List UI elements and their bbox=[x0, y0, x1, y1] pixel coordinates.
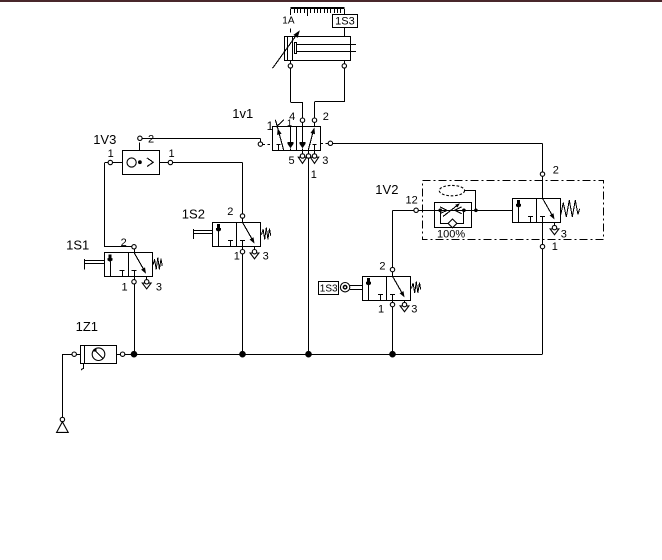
svg-text:3: 3 bbox=[322, 155, 328, 167]
compressed air supply bbox=[57, 417, 69, 432]
1S2 port 3 exhaust bbox=[250, 246, 259, 259]
svg-text:1v1: 1v1 bbox=[232, 106, 253, 121]
label 2 (1V3 top) bbox=[148, 133, 154, 145]
1S1 port 2 connection bbox=[132, 245, 136, 253]
wire 1S3 valve port 1 down bbox=[392, 307, 394, 355]
supply rail bbox=[125, 354, 543, 356]
label 1 (1S2) bbox=[234, 251, 240, 263]
flow control valve (throttle) 1V2 bbox=[418, 203, 512, 228]
1V2 pilot port 12 bbox=[414, 208, 418, 212]
port label 5 bbox=[288, 155, 294, 167]
label 2 (1V2) bbox=[553, 164, 559, 176]
svg-text:1S2: 1S2 bbox=[182, 207, 205, 222]
label 2 (1S3 valve) bbox=[379, 261, 385, 273]
svg-text:2: 2 bbox=[121, 237, 127, 249]
svg-text:2: 2 bbox=[379, 261, 385, 273]
1S3 sensor box bbox=[319, 282, 339, 295]
svg-text:1: 1 bbox=[311, 169, 317, 181]
label 1 (pilot 14) bbox=[267, 119, 274, 133]
svg-text:2: 2 bbox=[227, 206, 233, 218]
1v1 port 1 connection bbox=[306, 154, 310, 158]
port label 3 (1v1) bbox=[322, 155, 328, 167]
1S3 valve port 2 connection bbox=[390, 267, 394, 276]
air reservoir (oval) bbox=[439, 185, 464, 195]
port label 4 bbox=[289, 111, 295, 123]
1S3 valve return spring bbox=[412, 282, 421, 294]
check valve bypass 1V2 bbox=[440, 210, 464, 228]
1S3 sensor plunger bbox=[350, 286, 363, 290]
wire cylinder right port to valve port 2 bbox=[315, 68, 345, 118]
1v1 left box flow symbols bbox=[275, 120, 293, 150]
label 1 (1S1) bbox=[122, 281, 128, 293]
svg-text:3: 3 bbox=[561, 228, 567, 240]
wire port 12 to 1S3 valve port 2 bbox=[393, 210, 414, 267]
svg-text:3: 3 bbox=[156, 281, 162, 293]
wire 1V3 left stub bbox=[112, 162, 122, 164]
1V2 enclosure bbox=[423, 181, 604, 240]
1v1 right box flow symbols bbox=[300, 122, 317, 150]
1Z1 right port connection bbox=[117, 352, 125, 356]
svg-text:2: 2 bbox=[323, 111, 329, 123]
1v1 port 5 connection bbox=[300, 154, 304, 158]
timer 3/2 valve body bbox=[513, 198, 561, 222]
wire 1v1 port 1 down to rail bbox=[308, 158, 310, 354]
junction dot right bbox=[462, 209, 466, 213]
label 2 (1S1) bbox=[121, 237, 127, 249]
1S2 return spring bbox=[262, 228, 271, 240]
svg-text:1Z1: 1Z1 bbox=[76, 319, 98, 334]
1S2 port 2 connection bbox=[240, 214, 244, 223]
wire 1S1 port 1 down bbox=[134, 284, 136, 354]
label 1v1 bbox=[232, 106, 253, 121]
label 12 bbox=[406, 195, 418, 207]
1S3 valve port 1 connection bbox=[390, 300, 394, 307]
wire 1V3 left to 1S1 port 2 bbox=[105, 163, 132, 247]
port label 2 (1v1) bbox=[323, 111, 329, 123]
cylinder left port bbox=[288, 60, 292, 68]
valve 1S2 body bbox=[213, 222, 261, 246]
label 2 (1S2) bbox=[227, 206, 233, 218]
junction node 1S1 bbox=[131, 351, 138, 358]
wire timer port 1 down to rail bbox=[542, 249, 544, 355]
service unit 1Z1 bbox=[81, 345, 117, 370]
svg-text:2: 2 bbox=[553, 164, 559, 176]
wire 1V3 right stub bbox=[159, 162, 168, 164]
1v1 left pilot bbox=[258, 142, 272, 146]
timer valve port 2 connection bbox=[540, 172, 544, 198]
wire cylinder left port to valve port 4 bbox=[290, 68, 302, 118]
svg-text:1V2: 1V2 bbox=[375, 182, 398, 197]
timer valve port 1 connection bbox=[540, 222, 544, 249]
valve 1S1 body bbox=[105, 253, 153, 277]
svg-text:1: 1 bbox=[122, 281, 128, 293]
label 3 (1S2) bbox=[263, 251, 269, 263]
svg-text:1V3: 1V3 bbox=[93, 132, 116, 147]
label 1S2 bbox=[182, 207, 205, 222]
svg-text:1S3: 1S3 bbox=[320, 284, 338, 295]
label 1Z1 bbox=[76, 319, 98, 334]
reservoir connector bbox=[465, 191, 476, 211]
1S1 port 3 exhaust bbox=[142, 276, 151, 289]
svg-text:100%: 100% bbox=[437, 229, 465, 241]
wire 1S3 box to cylinder bbox=[344, 28, 346, 37]
1v1 bottom port stubs bbox=[303, 150, 315, 154]
1v1 right pilot bbox=[321, 141, 333, 145]
1S1 port 1 connection bbox=[132, 276, 136, 284]
valve 1v1 body bbox=[273, 126, 321, 150]
label 1A bbox=[282, 16, 295, 27]
label 3 (1S3 valve) bbox=[411, 303, 417, 315]
label 1 (1S3 valve) bbox=[378, 303, 384, 315]
cylinder right port bbox=[342, 60, 346, 68]
wire 1v1 right pilot to 1V2 port 2 bbox=[333, 143, 543, 172]
wire 1V3 right to 1S2 port 2 bbox=[173, 163, 243, 214]
svg-text:1A: 1A bbox=[282, 16, 295, 27]
1S2 plunger actuator bbox=[193, 229, 213, 239]
label 1 (1V2) bbox=[552, 241, 558, 253]
timer valve return spring bbox=[561, 200, 580, 217]
timer valve port 3 exhaust bbox=[550, 222, 559, 235]
label 1V2 bbox=[375, 182, 398, 197]
label 1 (1V3 right) bbox=[169, 148, 175, 160]
wire 1Z1 to air supply bbox=[62, 354, 72, 417]
1V3 top port connection bbox=[138, 136, 142, 140]
junction dot left bbox=[438, 209, 442, 213]
1S1 plunger actuator bbox=[85, 259, 105, 269]
wire 1S2 port 1 down bbox=[242, 254, 244, 354]
1S3 valve port 3 exhaust bbox=[400, 300, 409, 312]
valve 1S3 body bbox=[363, 276, 411, 300]
svg-text:1: 1 bbox=[552, 241, 558, 253]
junction dot reservoir bbox=[474, 209, 478, 213]
shuttle valve 1V3 bbox=[123, 143, 160, 175]
label 1 (small, near 4) bbox=[287, 118, 292, 128]
label 1V3 bbox=[93, 132, 116, 147]
1v1 exhaust triangle port 5 bbox=[298, 157, 306, 163]
svg-text:5: 5 bbox=[288, 155, 294, 167]
svg-text:2: 2 bbox=[148, 133, 154, 145]
1S1 return spring bbox=[153, 258, 162, 270]
1S2 port 1 connection bbox=[240, 246, 244, 254]
measuring scale (ruler) above cylinder bbox=[290, 7, 344, 16]
1Z1 left port connection bbox=[72, 352, 81, 356]
distance rule box 1S3 bbox=[333, 15, 358, 28]
svg-text:1S3: 1S3 bbox=[335, 15, 355, 27]
svg-text:1S1: 1S1 bbox=[66, 237, 89, 252]
label 1 (1V3 left) bbox=[108, 148, 114, 160]
1V3 right port connection bbox=[168, 160, 172, 164]
1V3 left port connection bbox=[108, 160, 112, 164]
label 1S1 bbox=[66, 237, 89, 252]
svg-text:1: 1 bbox=[234, 251, 240, 263]
port 4 connection bbox=[300, 118, 304, 122]
window top border bbox=[0, 0, 662, 2]
svg-text:4: 4 bbox=[289, 111, 295, 123]
1v1 exhaust triangle port 3 bbox=[310, 157, 318, 163]
label 3 (1V2) bbox=[561, 228, 567, 240]
junction node 1S2 bbox=[239, 351, 246, 358]
port 2 connection bbox=[312, 118, 316, 122]
port label 1 (1v1) bbox=[311, 169, 317, 181]
svg-text:1: 1 bbox=[378, 303, 384, 315]
1S3 sensor roller bbox=[340, 283, 349, 292]
svg-text:3: 3 bbox=[263, 251, 269, 263]
svg-text:1: 1 bbox=[108, 148, 114, 160]
wire to timer valve pilot bbox=[466, 210, 513, 212]
cushion adjust arrow bbox=[273, 29, 300, 68]
junction node 1S3 valve bbox=[389, 351, 396, 358]
label 100% bbox=[437, 229, 465, 241]
junction node 1v1 bbox=[305, 351, 312, 358]
label 3 (1S1) bbox=[156, 281, 162, 293]
svg-text:1: 1 bbox=[169, 148, 175, 160]
wire 1V3 to 1v1 left pilot bbox=[142, 138, 261, 142]
1v1 port 3 connection bbox=[312, 154, 316, 158]
cylinder 1A body bbox=[285, 37, 357, 61]
svg-text:3: 3 bbox=[411, 303, 417, 315]
svg-text:12: 12 bbox=[406, 195, 418, 207]
